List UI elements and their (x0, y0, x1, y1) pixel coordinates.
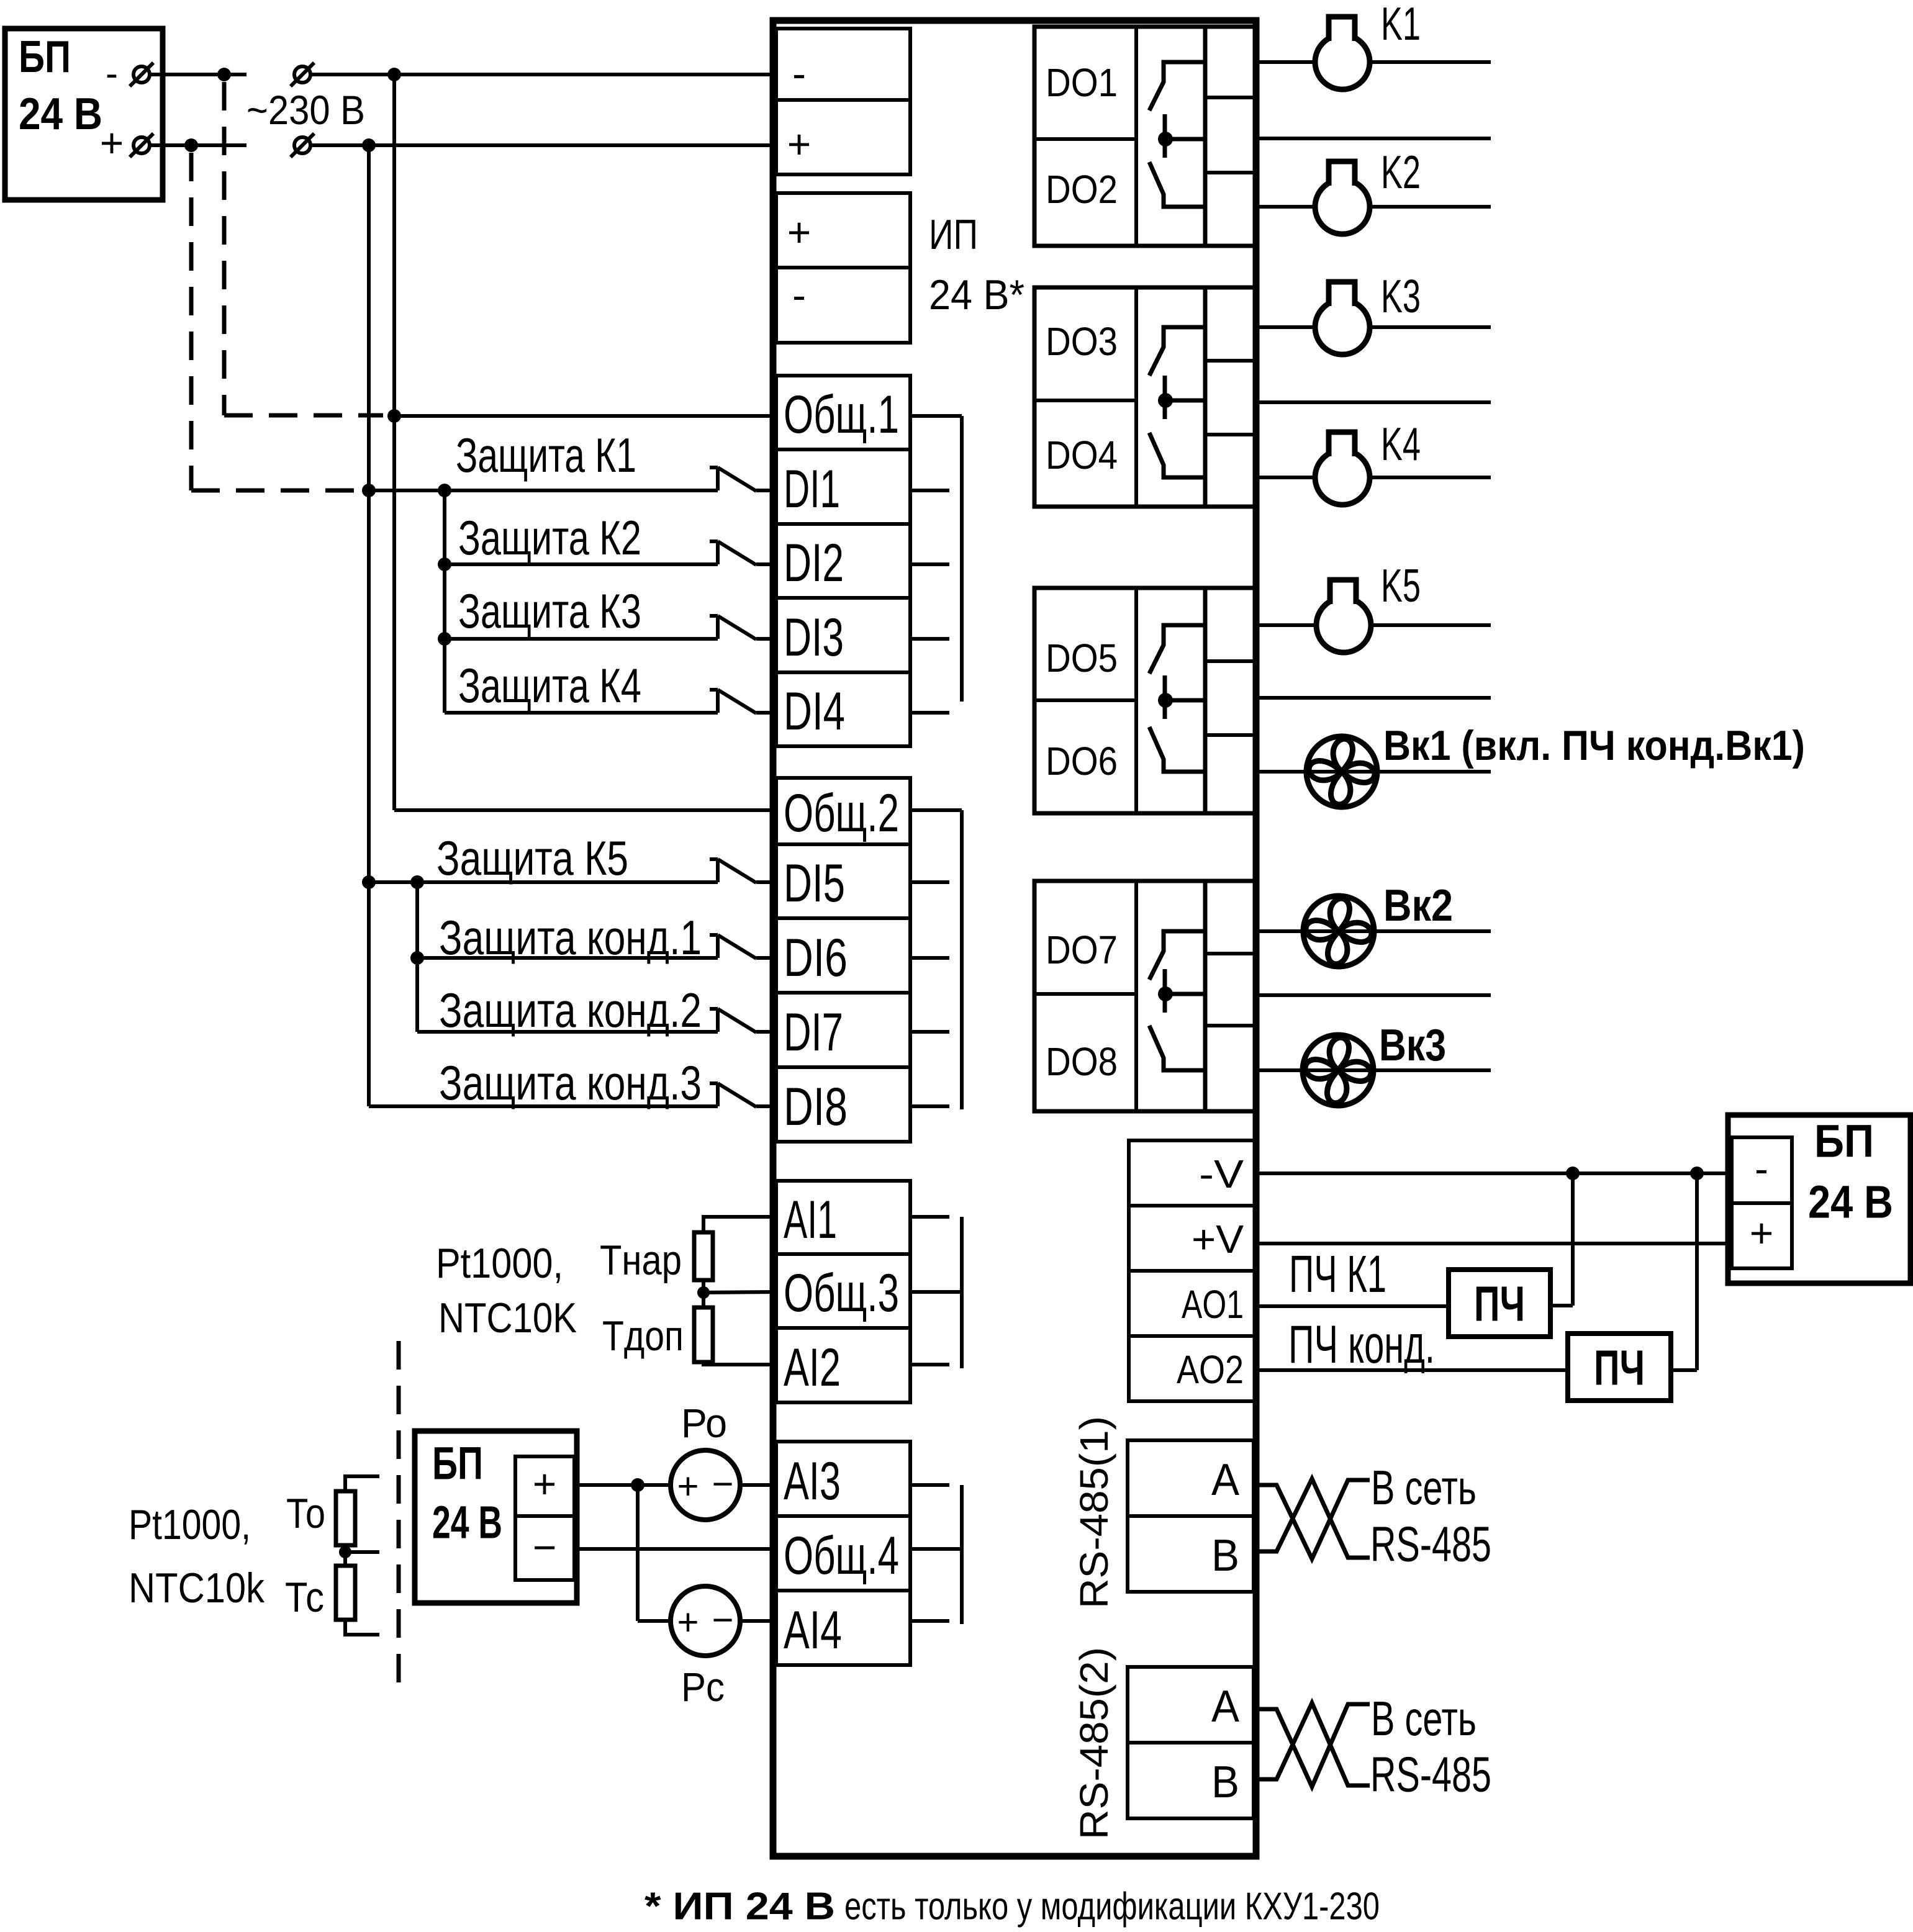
svg-text:DO3: DO3 (1046, 319, 1118, 364)
pressure sensor Рс (671, 1586, 740, 1656)
svg-text:RS-485: RS-485 (1370, 1747, 1491, 1802)
output pin boxes DO7/DO8 (1205, 881, 1256, 1111)
svg-text:-: - (792, 50, 806, 96)
terminal box Общ.1 (776, 376, 910, 449)
svg-text:24 В: 24 В (19, 89, 102, 139)
svg-text:Общ.2: Общ.2 (784, 783, 899, 843)
svg-text:24 В*: 24 В* (929, 271, 1024, 318)
divider between DO3 and DO4 (1034, 399, 1136, 402)
bell K4 (1315, 432, 1370, 505)
svg-text:ИП: ИП (929, 211, 978, 258)
svg-text:-V: -V (1199, 1152, 1244, 1196)
wire БП- to Общ.4 (574, 1547, 776, 1551)
bell K2 (1315, 161, 1370, 234)
svg-text:−: − (712, 1463, 733, 1505)
svg-text:Рс: Рс (681, 1664, 725, 1710)
terminal box A (RS-485(1)) (1128, 1440, 1254, 1516)
junction DI6 feed (410, 951, 424, 965)
wire rail x594 from + junction to DI8 corner (367, 145, 371, 1106)
dashed wire from + junction down (189, 153, 194, 490)
svg-text:БП: БП (432, 1438, 483, 1489)
screw terminal ~230В upper (291, 63, 314, 86)
junction -V / ПЧ1 (1566, 1167, 1580, 1180)
internal rail AI3/AI4 to Общ.4 (910, 1485, 962, 1624)
wire DO5/DO6 common (1259, 696, 1491, 700)
wire to controller - terminal (310, 73, 776, 76)
terminal box AI3 (776, 1442, 910, 1516)
svg-text:DI4: DI4 (784, 682, 845, 741)
wire Общ.2 from corner (394, 808, 776, 812)
wire to Общ.3 (703, 1292, 776, 1293)
terminal box AI2 (776, 1328, 910, 1402)
svg-text:-: - (1755, 1145, 1768, 1191)
svg-text:DI3: DI3 (784, 608, 844, 667)
internal rail DI5-8 to Общ.2 (910, 810, 962, 1109)
svg-text:+: + (100, 120, 124, 166)
wire ПЧ2 out (1671, 1368, 1697, 1372)
svg-text:* ИП 24 В: * ИП 24 В (644, 1885, 835, 1928)
svg-text:DI6: DI6 (784, 928, 848, 988)
switch Защита К3 (DI3) (445, 616, 776, 639)
internal rail AI1/AI2 to Общ.3 (910, 1217, 962, 1368)
svg-text:Защита К3: Защита К3 (458, 584, 641, 638)
svg-text:Общ.3: Общ.3 (784, 1263, 899, 1323)
pressure sensor Ро (671, 1450, 740, 1520)
switch Защита К5 (DI5) (369, 859, 776, 883)
svg-text:K2: K2 (1381, 146, 1421, 198)
wire Рс to AI4 (740, 1619, 776, 1623)
wire -V to БП (1259, 1171, 1728, 1175)
junction DI1 feed (362, 484, 376, 497)
terminal box DI2 (776, 524, 910, 598)
svg-text:Защита конд.1: Защита конд.1 (439, 910, 702, 965)
resistor Тдоп (694, 1307, 713, 1362)
wire DO2 output to K2 (1259, 205, 1491, 209)
svg-text:DI2: DI2 (784, 533, 844, 593)
wire ПЧ2 up to -V (1695, 1173, 1699, 1370)
junction DI2 feed (438, 557, 451, 571)
svg-text:Общ.1: Общ.1 (784, 385, 899, 445)
wire DO8 output to Вк3 (1259, 1068, 1491, 1072)
changeover contact DO5/DO6 (1149, 625, 1205, 772)
wire bus x716 feeding DI2-DI4 (443, 490, 446, 713)
svg-text:ПЧ: ПЧ (1474, 1276, 1525, 1332)
БП bottom + terminal box (515, 1456, 574, 1516)
wire middle lead (345, 1550, 379, 1554)
svg-text:+V: +V (1192, 1217, 1244, 1262)
junction -V / ПЧ2 (1690, 1167, 1704, 1180)
junction on - wire (217, 68, 231, 81)
svg-text:AI1: AI1 (784, 1190, 837, 1250)
junction bus DI2-4 top (438, 484, 451, 497)
svg-text:Общ.4: Общ.4 (784, 1526, 899, 1586)
terminal box DI6 (776, 918, 910, 993)
junction Тнар/Тдоп (697, 1286, 710, 1299)
output pin boxes DO1/DO2 (1205, 27, 1256, 246)
wire DI7 corner (417, 1031, 445, 1032)
wire bus x672 feeding DI6-DI7 (415, 882, 419, 1032)
svg-text:DO8: DO8 (1046, 1039, 1118, 1084)
svg-text:Защита конд.3: Защита конд.3 (439, 1055, 702, 1110)
relay output group DO3/DO4 box (1034, 287, 1205, 507)
svg-text:−: − (533, 1524, 557, 1570)
frequency converter ПЧ (конд) (1568, 1334, 1671, 1401)
junction - wire / left rail 1 (387, 68, 401, 81)
fan Вк2 (1303, 896, 1374, 967)
svg-text:B: B (1211, 1758, 1239, 1807)
terminal box Общ.4 (776, 1516, 910, 1591)
terminal box DI7 (776, 993, 910, 1067)
svg-text:Вк3: Вк3 (1379, 1021, 1446, 1070)
wire БП+ to Ро (574, 1483, 671, 1487)
frequency converter ПЧ (K1) (1449, 1270, 1550, 1337)
svg-text:Защита К5: Защита К5 (436, 831, 628, 885)
power supply БП 24 В (top-left) (5, 29, 163, 200)
terminal box Общ.2 (776, 778, 910, 844)
power supply БП 24 В (right) (1728, 1115, 1911, 1283)
terminal box DI3 (776, 598, 910, 672)
wire DO3 output to K3 (1259, 325, 1491, 329)
terminal box DI8 (776, 1067, 910, 1142)
svg-text:24 В: 24 В (1808, 1176, 1893, 1228)
svg-text:K1: K1 (1381, 0, 1421, 50)
svg-text:~230 В: ~230 В (246, 87, 365, 133)
fan Вк3 (1303, 1035, 1373, 1106)
divider between DO7 and DO8 (1034, 992, 1136, 996)
svg-text:AI3: AI3 (784, 1451, 841, 1511)
screw terminal + of БП (130, 133, 153, 157)
terminal box + (776, 193, 910, 268)
svg-text:ПЧ: ПЧ (1594, 1340, 1645, 1396)
wire DO1/DO2 common (1259, 137, 1491, 140)
wire DO1 output to K1 (1259, 60, 1491, 64)
output pin boxes DO3/DO4 (1205, 287, 1256, 507)
switch Защита К1 (DI1) (369, 467, 776, 491)
svg-text:DO2: DO2 (1046, 167, 1118, 212)
terminal box AI1 (776, 1181, 910, 1254)
terminal box + (776, 100, 910, 174)
power supply БП 24 В (bottom) (415, 1431, 577, 1603)
internal rail DI1-4 to Общ.1 (910, 416, 962, 713)
svg-text:AO2: AO2 (1177, 1347, 1244, 1392)
bell K5 (1316, 580, 1371, 652)
wire branch down to Рс (636, 1485, 640, 1621)
terminal box AO2 (1129, 1336, 1255, 1401)
svg-text:+: + (533, 1461, 557, 1507)
svg-text:AI4: AI4 (784, 1600, 842, 1660)
switch Защита конд.3 (DI8) (369, 1083, 776, 1107)
svg-text:DO7: DO7 (1046, 928, 1118, 972)
БП right - terminal box (1732, 1137, 1792, 1203)
relay output group DO1/DO2 box (1034, 27, 1205, 246)
svg-text:Тнар: Тнар (600, 1237, 682, 1284)
svg-text:То: То (286, 1490, 325, 1537)
column divider DO3/DO4 (1134, 287, 1138, 507)
wire between resistors (702, 1280, 705, 1307)
svg-text:Защита К2: Защита К2 (458, 510, 641, 565)
terminal box - (776, 268, 910, 343)
wire Общ.1 (394, 414, 776, 418)
svg-text:RS-485(1): RS-485(1) (1072, 1416, 1116, 1609)
column divider DO1/DO2 (1134, 27, 1138, 246)
bell K3 (1315, 282, 1370, 354)
relay output group DO5/DO6 box (1034, 588, 1205, 813)
wire То top lead (345, 1476, 379, 1491)
svg-text:+: + (787, 209, 812, 255)
wire DO4 output to K4 (1259, 476, 1491, 479)
divider between DO1 and DO2 (1034, 137, 1136, 141)
svg-text:+: + (677, 1602, 699, 1643)
svg-text:DO5: DO5 (1046, 636, 1118, 680)
svg-text:+: + (787, 121, 812, 167)
terminal box AI4 (776, 1591, 910, 1665)
controller main block outline (773, 20, 1256, 1856)
wire DO6 output to Вк1 (1259, 770, 1491, 774)
svg-text:Вк2: Вк2 (1383, 881, 1453, 931)
junction DI5 feed (362, 875, 376, 889)
junction То/Тс (339, 1546, 351, 1558)
terminal box - (776, 29, 910, 100)
svg-text:Защита К4: Защита К4 (458, 658, 641, 713)
svg-text:RS-485: RS-485 (1370, 1517, 1491, 1572)
svg-text:−: − (712, 1599, 733, 1641)
junction on + wire (184, 138, 198, 152)
wire Тс bottom lead (345, 1620, 379, 1635)
svg-text:DO1: DO1 (1046, 60, 1118, 105)
svg-text:NTC10k: NTC10k (129, 1564, 265, 1612)
wire Тнар top to AI1 (703, 1217, 776, 1232)
svg-text:В сеть: В сеть (1371, 1460, 1477, 1515)
wire БП+ to break (150, 143, 246, 147)
svg-text:RS-485(2): RS-485(2) (1072, 1647, 1116, 1839)
terminal box B (RS-485(1)) (1128, 1516, 1254, 1592)
wire +V to БП (1259, 1242, 1728, 1245)
svg-text:DI7: DI7 (784, 1003, 843, 1062)
svg-text:Защита конд.2: Защита конд.2 (439, 983, 702, 1037)
terminal box DI1 (776, 449, 910, 524)
svg-text:ПЧ К1: ПЧ К1 (1289, 1245, 1386, 1303)
wire БП- to break (150, 73, 246, 76)
wire rail x635 from - junction to Общ.2 corner (392, 74, 396, 810)
resistor Тс (336, 1566, 355, 1620)
terminal box DI4 (776, 672, 910, 746)
svg-text:Ро: Ро (681, 1400, 727, 1446)
svg-text:В сеть: В сеть (1371, 1691, 1477, 1746)
wire DO7 output to Вк2 (1259, 929, 1491, 933)
dashed wire to Общ.1 node (224, 413, 383, 418)
changeover contact DO1/DO2 (1149, 62, 1205, 207)
svg-text:AI2: AI2 (784, 1338, 841, 1397)
fan Вк1 (1306, 736, 1377, 807)
svg-text:DO6: DO6 (1046, 739, 1118, 783)
wire to Рс (638, 1619, 671, 1623)
svg-text:Защита К1: Защита К1 (456, 428, 636, 482)
svg-text:AO1: AO1 (1182, 1282, 1244, 1327)
wire DO3/DO4 common (1259, 400, 1491, 404)
terminal box DI5 (776, 844, 910, 918)
wire AO2 to ПЧ (1259, 1368, 1568, 1372)
switch Защита К4 (DI4) (445, 690, 776, 713)
svg-text:K5: K5 (1381, 559, 1421, 612)
junction bus DI6-7 top (410, 875, 424, 889)
svg-text:-: - (792, 272, 806, 318)
terminal box -V (1129, 1140, 1255, 1206)
switch Защита конд.2 (DI7) (417, 1009, 776, 1032)
svg-text:DI8: DI8 (784, 1077, 848, 1137)
wire between То Тс (343, 1545, 347, 1566)
svg-text:БП: БП (1814, 1116, 1874, 1167)
terminal box AO1 (1129, 1271, 1255, 1336)
junction Общ.1 (387, 409, 401, 423)
БП bottom - terminal box (515, 1516, 574, 1580)
junction DI3 feed (438, 632, 451, 646)
wire ПЧ1 up to -V (1571, 1173, 1575, 1306)
wire DO5 output to K5 (1259, 623, 1491, 627)
column divider DO5/DO6 (1134, 588, 1138, 813)
svg-text:БП: БП (19, 32, 71, 82)
svg-text:NTC10K: NTC10K (438, 1294, 577, 1342)
wire AO1 to ПЧ (1259, 1304, 1449, 1308)
output pin boxes DO5/DO6 (1205, 588, 1256, 813)
wire DO7/DO8 common (1259, 993, 1491, 997)
svg-text:Pt1000,: Pt1000, (436, 1240, 563, 1287)
svg-text:B: B (1211, 1531, 1239, 1581)
terminal box B (RS-485(2)) (1128, 1743, 1254, 1818)
relay output group DO7/DO8 box (1034, 881, 1205, 1111)
wire ПЧ1 out (1550, 1304, 1573, 1307)
terminal box Общ.3 (776, 1254, 910, 1328)
resistor Тнар (694, 1232, 713, 1280)
svg-text:Pt1000,: Pt1000, (129, 1501, 251, 1548)
svg-text:A: A (1211, 1682, 1239, 1731)
junction БП+ / Рс branch (631, 1478, 644, 1492)
svg-text:K3: K3 (1381, 270, 1421, 322)
screw terminal ~230В lower (291, 133, 314, 157)
resistor То (336, 1491, 355, 1545)
svg-text:DI5: DI5 (784, 854, 845, 913)
svg-text:есть только у модификации КХУ1: есть только у модификации КХУ1-230 (844, 1885, 1380, 1928)
screw terminal - of БП (130, 63, 153, 86)
svg-text:K4: K4 (1381, 418, 1421, 470)
changeover contact DO3/DO4 (1149, 327, 1205, 477)
twisted pair RS-485(2) (1259, 1703, 1370, 1787)
svg-text:DO4: DO4 (1046, 433, 1118, 477)
svg-text:-: - (106, 53, 118, 94)
svg-text:Тс: Тс (285, 1574, 324, 1621)
switch Защита конд.1 (DI6) (417, 935, 776, 959)
bell K1 (1315, 17, 1370, 89)
divider between DO5 and DO6 (1034, 698, 1136, 702)
wire Ро to AI3 (740, 1483, 776, 1487)
svg-text:DI1: DI1 (784, 459, 840, 519)
svg-text:24 В: 24 В (432, 1497, 502, 1548)
switch Защита К2 (DI2) (445, 541, 776, 565)
dashed wire to DI1 node (191, 489, 359, 493)
terminal box A (RS-485(2)) (1128, 1667, 1254, 1743)
БП right + terminal box (1732, 1203, 1792, 1268)
changeover contact DO7/DO8 (1149, 931, 1205, 1070)
svg-text:+: + (677, 1466, 699, 1507)
twisted pair RS-485(1) (1259, 1479, 1370, 1559)
dashed wire from - junction down (222, 82, 227, 415)
svg-text:+: + (1750, 1210, 1774, 1256)
wire to controller + terminal (310, 143, 776, 147)
svg-text:A: A (1211, 1455, 1239, 1505)
svg-text:ПЧ конд.: ПЧ конд. (1288, 1315, 1435, 1375)
svg-text:Вк1 (вкл. ПЧ конд.Вк1): Вк1 (вкл. ПЧ конд.Вк1) (1383, 722, 1805, 769)
dashed cabinet boundary (397, 1341, 401, 1698)
svg-text:Тдоп: Тдоп (602, 1312, 684, 1360)
terminal box +V (1129, 1206, 1255, 1271)
wire Тдоп bottom to AI2 (703, 1362, 776, 1365)
column divider DO7/DO8 (1134, 881, 1138, 1111)
junction + wire / left rail 2 (362, 138, 376, 152)
